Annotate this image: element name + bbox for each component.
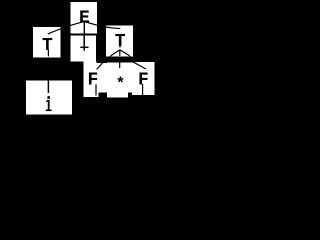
wire stub below left T [47, 50, 49, 57]
svg-text:F: F [88, 70, 99, 90]
wire above * [119, 63, 121, 69]
plus horizontal [80, 46, 88, 48]
row white left section (under +) [84, 62, 97, 93]
triangle under right T: center vertical [119, 50, 121, 56]
node box T left [33, 27, 61, 58]
node box E [71, 2, 98, 34]
wire stub below left F [95, 84, 97, 95]
svg-text:F: F [138, 70, 149, 90]
wire diagonal to left F [97, 56, 111, 69]
svg-text:E: E [79, 8, 90, 28]
node box T right [106, 25, 133, 56]
triangle under right T: right side [120, 50, 130, 56]
wire stub below right F [142, 84, 144, 95]
wire stub below right T [119, 45, 121, 48]
row white right section [133, 62, 155, 93]
svg-text:*: * [116, 75, 126, 93]
tab below * [107, 92, 128, 97]
wire edge E to left T (arc) [48, 22, 84, 34]
wire stem above + and plus vertical [83, 35, 85, 50]
node box i [26, 81, 72, 115]
tab below right F [132, 92, 155, 95]
label i (drawn) [46, 96, 52, 110]
row white center section [107, 63, 133, 93]
svg-text:T: T [42, 36, 53, 56]
node box + [71, 35, 97, 61]
triangle under right T: left side [111, 50, 120, 56]
tab below left F [84, 92, 99, 97]
wire edge E to right T (arc) [85, 22, 120, 29]
svg-text:T: T [115, 32, 126, 52]
wire E stem down [83, 21, 85, 34]
wire above i [47, 81, 49, 94]
wire diagonal to right F [130, 56, 146, 69]
row white notch section [96, 63, 107, 93]
